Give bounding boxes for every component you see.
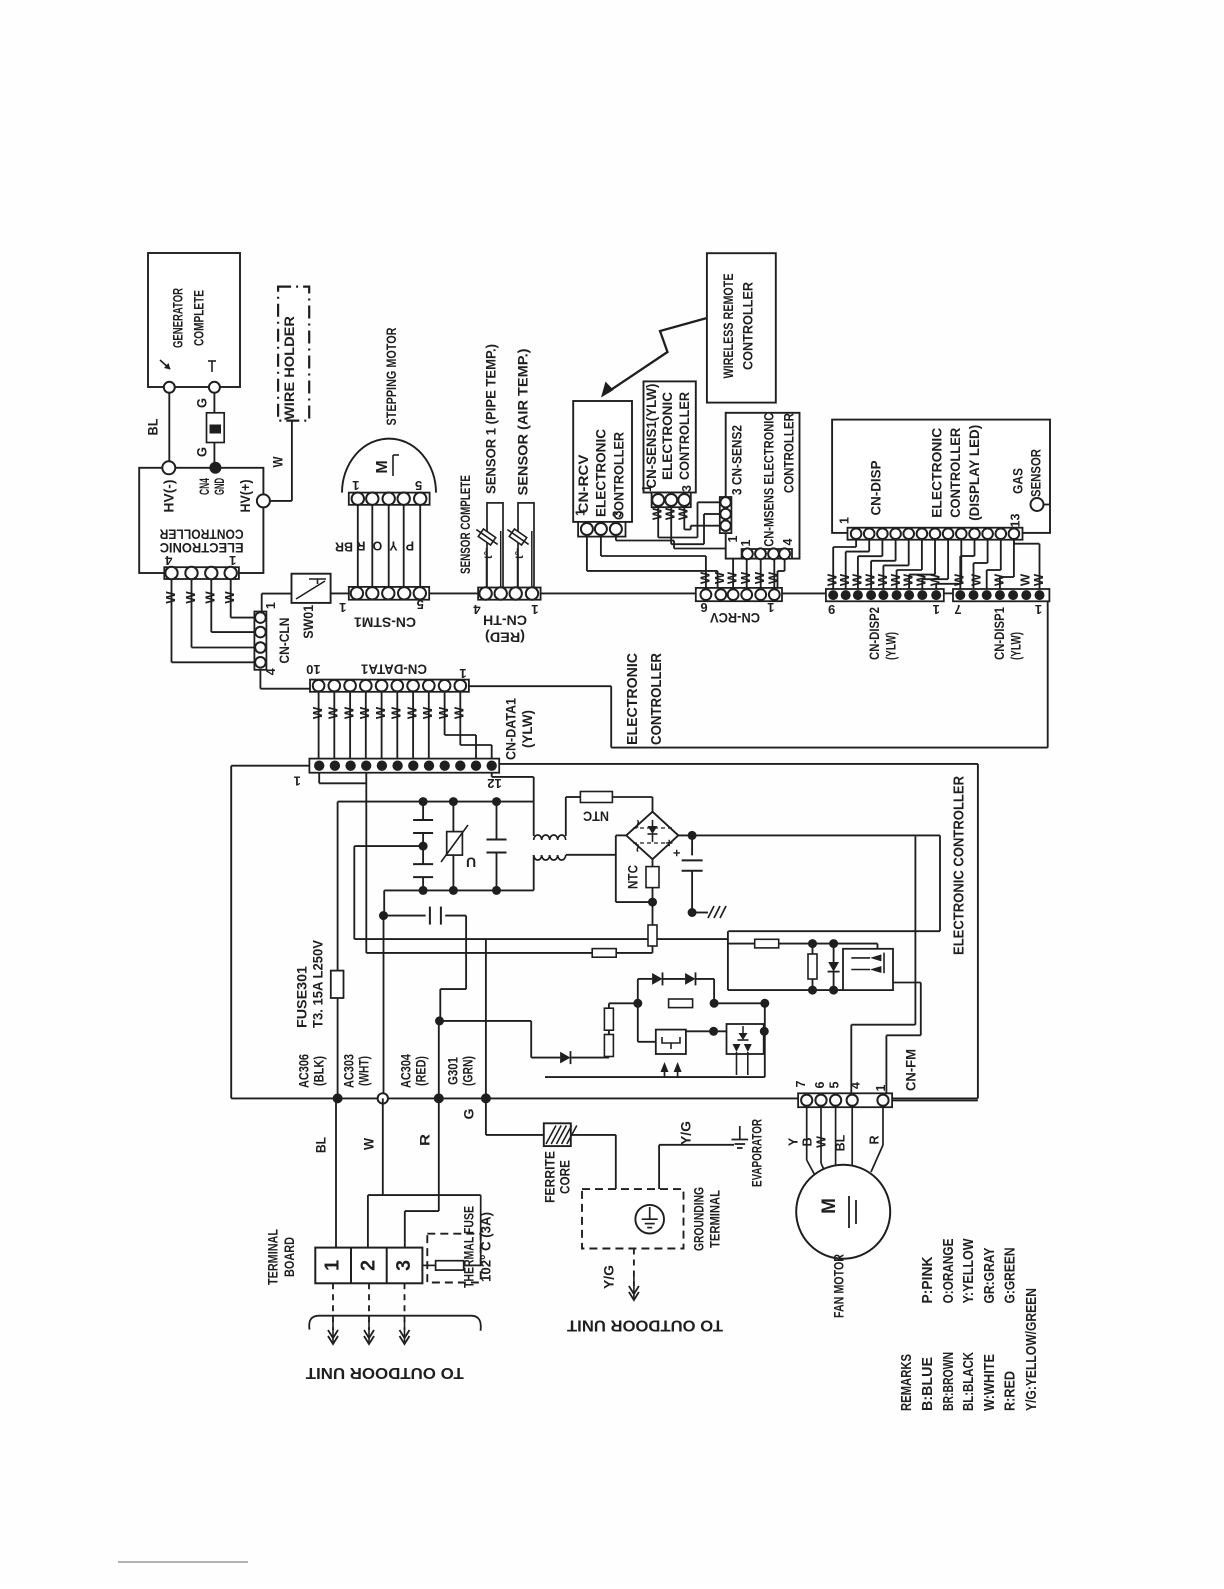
svg-text:HV(+): HV(+) <box>238 480 253 513</box>
svg-text:13: 13 <box>1008 514 1022 528</box>
svg-text:W: W <box>222 591 237 604</box>
svg-text:W: W <box>738 571 753 584</box>
svg-text:NTC: NTC <box>583 808 609 823</box>
svg-text:CONTROLLER: CONTROLLER <box>677 392 692 480</box>
svg-text:W: W <box>342 706 357 719</box>
svg-text:CN4: CN4 <box>197 478 212 495</box>
svg-text:R:RED: R:RED <box>1001 1371 1018 1411</box>
svg-text:1: 1 <box>739 539 753 546</box>
svg-text:1: 1 <box>1035 602 1042 617</box>
svg-text:W: W <box>928 573 943 586</box>
svg-text:B: B <box>800 1137 814 1146</box>
svg-text:G: G <box>195 398 210 408</box>
svg-text:EVAPORATOR: EVAPORATOR <box>750 1119 765 1187</box>
svg-text:G: G <box>195 447 210 457</box>
svg-text:BR: BR <box>335 540 353 554</box>
svg-text:t°: t° <box>483 551 495 559</box>
svg-text:BOARD: BOARD <box>282 1237 297 1277</box>
svg-text:W: W <box>676 507 691 520</box>
svg-text:W: W <box>1031 573 1046 586</box>
svg-text:9: 9 <box>828 602 835 617</box>
svg-text:GR:GRAY: GR:GRAY <box>981 1248 998 1304</box>
svg-text:1: 1 <box>264 602 278 609</box>
svg-text:3: 3 <box>680 485 694 492</box>
svg-text:W: W <box>326 706 341 719</box>
svg-text:TO OUTDOOR UNIT: TO OUTDOOR UNIT <box>566 1317 723 1334</box>
svg-text:6: 6 <box>700 600 707 615</box>
svg-text:1: 1 <box>574 509 588 516</box>
svg-text:4: 4 <box>264 668 278 675</box>
svg-text:4: 4 <box>848 1082 862 1089</box>
svg-text:CN-DATA1: CN-DATA1 <box>361 662 427 677</box>
svg-text:1: 1 <box>837 517 851 524</box>
svg-text:1: 1 <box>640 485 654 492</box>
svg-text:BL:BLACK: BL:BLACK <box>960 1352 977 1411</box>
svg-text:U: U <box>466 854 476 870</box>
svg-text:SENSOR 1 (PIPE TEMP.): SENSOR 1 (PIPE TEMP.) <box>484 344 499 494</box>
svg-text:CORE: CORE <box>558 1160 573 1194</box>
svg-text:Y: Y <box>389 539 398 553</box>
svg-text:(YLW): (YLW) <box>520 710 535 748</box>
svg-text:W: W <box>436 706 451 719</box>
svg-text:t°: t° <box>514 551 526 559</box>
svg-text:(RED): (RED) <box>414 1056 429 1086</box>
svg-text:G: G <box>462 1109 477 1120</box>
svg-text:Y:YELLOW: Y:YELLOW <box>960 1238 977 1304</box>
svg-text:1: 1 <box>294 774 301 789</box>
svg-text:1: 1 <box>339 600 346 615</box>
svg-text:W: W <box>203 591 218 604</box>
svg-text:B:BLUE: B:BLUE <box>919 1357 936 1411</box>
svg-text:CONTROLLER: CONTROLLER <box>159 526 243 541</box>
svg-text:CONTROLLER: CONTROLLER <box>612 432 627 520</box>
svg-text:CN-STM1: CN-STM1 <box>353 615 416 630</box>
svg-text:CN-CLN: CN-CLN <box>277 618 292 664</box>
svg-text:12: 12 <box>487 776 501 791</box>
svg-text:1: 1 <box>933 602 940 617</box>
svg-text:+: + <box>661 839 676 847</box>
svg-text:AC306: AC306 <box>297 1054 312 1088</box>
svg-text:W: W <box>271 456 286 467</box>
svg-text:1: 1 <box>726 535 740 542</box>
svg-text:(GRN): (GRN) <box>461 1056 476 1086</box>
svg-text:W: W <box>163 591 178 604</box>
svg-text:TO OUTDOOR UNIT: TO OUTDOOR UNIT <box>305 1364 464 1381</box>
svg-text:G301: G301 <box>446 1057 461 1085</box>
svg-text:BR:BROWN: BR:BROWN <box>940 1352 957 1411</box>
svg-text:BL: BL <box>314 1137 329 1153</box>
svg-text:W: W <box>914 573 929 586</box>
svg-text:(YLW): (YLW) <box>884 632 899 660</box>
svg-text:W: W <box>357 706 372 719</box>
svg-text:1: 1 <box>229 553 236 568</box>
svg-text:G:GREEN: G:GREEN <box>1001 1248 1018 1304</box>
svg-text:SW01: SW01 <box>301 604 316 638</box>
svg-text:Y: Y <box>786 1137 800 1146</box>
svg-text:GND: GND <box>212 478 227 495</box>
svg-text:BL: BL <box>833 1134 847 1151</box>
svg-text:WIRELESS REMOTE: WIRELESS REMOTE <box>721 274 736 379</box>
svg-text:(WHT): (WHT) <box>357 1056 372 1086</box>
svg-text:W: W <box>389 706 404 719</box>
svg-text:CN-RCV: CN-RCV <box>710 610 760 625</box>
svg-text:CONTROLLER: CONTROLLER <box>948 428 963 518</box>
svg-text:W: W <box>991 573 1006 586</box>
svg-text:CONTROLLER: CONTROLLER <box>649 653 665 745</box>
svg-text:W: W <box>766 571 781 584</box>
svg-text:3 CN-SENS2: 3 CN-SENS2 <box>729 425 744 495</box>
svg-text:1: 1 <box>531 602 538 617</box>
svg-text:M: M <box>374 460 391 473</box>
svg-text:3: 3 <box>611 510 625 517</box>
svg-text:W:WHITE: W:WHITE <box>981 1354 998 1411</box>
svg-text:CN-SENS1(YLW): CN-SENS1(YLW) <box>644 384 659 489</box>
svg-text:R: R <box>356 539 365 553</box>
svg-text:P: P <box>406 539 414 553</box>
svg-text:W: W <box>952 573 967 586</box>
svg-text:P:PINK: P:PINK <box>919 1256 936 1303</box>
svg-text:W: W <box>814 1136 828 1148</box>
svg-text:HV(-): HV(-) <box>162 480 177 513</box>
svg-text:W: W <box>362 1138 377 1150</box>
svg-text:(YLW): (YLW) <box>1009 632 1024 660</box>
svg-text:CN-DISP: CN-DISP <box>869 461 884 516</box>
svg-text:CN-TH: CN-TH <box>483 612 527 627</box>
svg-text:W: W <box>420 706 435 719</box>
svg-text:ELECTRONIC: ELECTRONIC <box>594 429 609 517</box>
svg-text:W: W <box>968 573 983 586</box>
svg-text:SENSOR (AIR TEMP.): SENSOR (AIR TEMP.) <box>516 349 531 496</box>
svg-text:W: W <box>452 706 467 719</box>
svg-text:T3. 15A L250V: T3. 15A L250V <box>311 940 326 1028</box>
svg-text:3: 3 <box>393 1260 415 1271</box>
svg-text:6: 6 <box>813 1081 827 1088</box>
svg-text:(RED): (RED) <box>485 629 525 644</box>
svg-text:2: 2 <box>357 1260 379 1271</box>
svg-text:SENSOR COMPLETE: SENSOR COMPLETE <box>458 475 473 574</box>
svg-text:W: W <box>725 571 740 584</box>
svg-text:1: 1 <box>352 478 359 493</box>
svg-text:~: ~ <box>630 843 647 852</box>
svg-text:1: 1 <box>459 666 466 681</box>
svg-text:BL: BL <box>146 419 161 436</box>
svg-text:AC304: AC304 <box>399 1054 414 1088</box>
svg-text:FAN MOTOR: FAN MOTOR <box>832 1254 847 1318</box>
svg-text:GENERATOR: GENERATOR <box>171 288 186 348</box>
svg-text:CN-MSENS ELECTRONIC: CN-MSENS ELECTRONIC <box>762 413 777 547</box>
svg-text:CONTROLLER: CONTROLLER <box>782 413 797 493</box>
svg-text:5: 5 <box>827 1081 841 1088</box>
svg-text:CN-DISP2: CN-DISP2 <box>867 607 882 660</box>
svg-text:NTC: NTC <box>626 865 641 889</box>
svg-text:CN-RCV: CN-RCV <box>576 455 591 514</box>
svg-text:10: 10 <box>306 662 320 677</box>
svg-text:SENSOR: SENSOR <box>1029 449 1044 497</box>
svg-text:CN-FM: CN-FM <box>904 1049 919 1091</box>
svg-text:Y/G:YELLOW/GREEN: Y/G:YELLOW/GREEN <box>1023 1288 1040 1411</box>
svg-text:STEPPING MOTOR: STEPPING MOTOR <box>384 327 399 425</box>
svg-text:(DISPLAY LED): (DISPLAY LED) <box>967 425 982 521</box>
svg-text:+: + <box>669 849 684 857</box>
svg-text:CONTROLLER: CONTROLLER <box>741 282 756 370</box>
svg-text:R: R <box>418 1134 433 1146</box>
svg-text:(BLK): (BLK) <box>312 1056 327 1086</box>
svg-text:W: W <box>183 591 198 604</box>
svg-text:GROUNDING: GROUNDING <box>692 1187 707 1251</box>
svg-text:O: O <box>372 539 382 553</box>
svg-text:TERMINAL: TERMINAL <box>708 1190 723 1248</box>
svg-text:CN-DISP1: CN-DISP1 <box>992 607 1007 660</box>
svg-text:ELECTRONIC: ELECTRONIC <box>930 428 945 518</box>
svg-text:O:ORANGE: O:ORANGE <box>940 1239 957 1304</box>
svg-text:5: 5 <box>415 478 422 493</box>
svg-text:THERMAL FUSE: THERMAL FUSE <box>462 1206 477 1288</box>
svg-text:AC303: AC303 <box>342 1054 357 1088</box>
svg-text:GAS: GAS <box>1011 468 1026 494</box>
svg-text:1: 1 <box>767 600 774 615</box>
svg-text:FERRITE: FERRITE <box>543 1151 558 1203</box>
svg-text:TERMINAL: TERMINAL <box>266 1229 281 1285</box>
svg-text:~: ~ <box>630 819 647 828</box>
svg-text:Y/G: Y/G <box>602 1265 617 1289</box>
svg-text:7: 7 <box>794 1080 808 1087</box>
svg-text:COMPLETE: COMPLETE <box>192 290 207 346</box>
svg-text:W: W <box>310 706 325 719</box>
svg-text:Y/G: Y/G <box>679 1121 694 1145</box>
svg-text:W: W <box>373 706 388 719</box>
svg-text:FUSE301: FUSE301 <box>295 965 310 1028</box>
svg-text:REMARKS: REMARKS <box>898 1354 915 1411</box>
svg-text:CN-DATA1: CN-DATA1 <box>504 698 519 760</box>
svg-text:WIRE HOLDER: WIRE HOLDER <box>282 316 297 420</box>
svg-text:M: M <box>819 1198 840 1214</box>
svg-text:ELECTRONIC CONTROLLER: ELECTRONIC CONTROLLER <box>951 776 967 955</box>
svg-text:4: 4 <box>473 602 481 617</box>
svg-text:4: 4 <box>781 538 795 545</box>
svg-text:1: 1 <box>321 1260 343 1271</box>
svg-text:W: W <box>697 571 712 584</box>
svg-text:102° C (3A): 102° C (3A) <box>479 1212 494 1282</box>
svg-text:1: 1 <box>874 1084 888 1091</box>
svg-text:R: R <box>867 1135 881 1144</box>
svg-text:ELECTRONIC: ELECTRONIC <box>660 392 675 480</box>
svg-text:ELECTRONIC: ELECTRONIC <box>625 652 641 745</box>
svg-text:W: W <box>405 706 420 719</box>
svg-text:5: 5 <box>417 597 424 612</box>
svg-text:7: 7 <box>954 602 961 617</box>
svg-text:ELECTRONIC: ELECTRONIC <box>159 540 243 555</box>
